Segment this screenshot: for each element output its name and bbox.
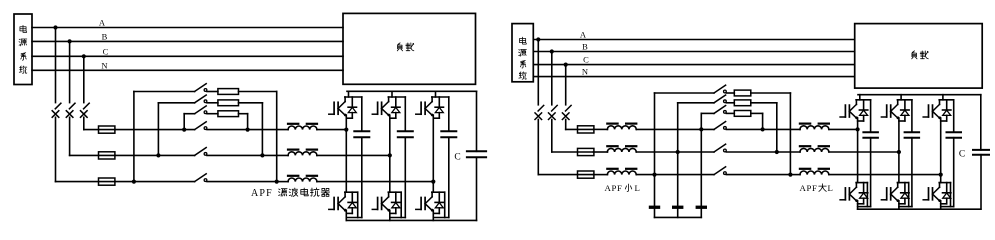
wire phase leg1 vertical (left) — [345, 115, 347, 192]
switch precharge S2 (right) — [714, 95, 726, 103]
switch KM-A (right) — [714, 167, 726, 175]
capacitor C main (right) — [973, 150, 989, 155]
label C (left) — [103, 46, 109, 56]
switch precharge S1 (right) — [714, 85, 726, 93]
svg-text:N: N — [582, 67, 588, 77]
node row A rejoin (left) — [275, 180, 279, 184]
resistor R1 precharge (right) — [734, 90, 751, 96]
node row B rejoin (right) — [775, 150, 779, 154]
wire precharge row1 left riser (left) — [134, 92, 195, 182]
capacitor DC link leg3 (right) — [947, 100, 962, 138]
wire precharge row2 left riser (left) — [158, 103, 194, 156]
reactor big L-B (right) — [800, 146, 829, 152]
breaker X contact phase B (right) — [549, 113, 556, 120]
wire top bus drop leg3 (left) — [435, 91, 437, 97]
wire phase leg3 vertical (left) — [432, 115, 434, 192]
wire node to reactor A (left) — [277, 181, 288, 183]
wire drop phase A upper (right) — [537, 40, 539, 105]
wire node to reactor C (left) — [248, 129, 289, 131]
wire rejoin C to big reactor (right) — [763, 128, 800, 130]
svg-text:APF: APF — [605, 183, 623, 193]
svg-text:A: A — [580, 30, 587, 40]
switch KM-B (right) — [714, 144, 726, 152]
wire leg1 bottom step (left) — [346, 137, 362, 217]
svg-text:C: C — [454, 153, 460, 163]
wire emitter leg2 to bus (right) — [898, 201, 900, 209]
wire fuse B to switch (left) — [115, 154, 195, 156]
IGBT V5 bottom with diode (right) — [881, 183, 909, 207]
breaker QF blade phase B (right) — [552, 105, 558, 111]
wire filter cap drop B (right) — [677, 152, 679, 217]
capacitor DC link leg2 (right) — [905, 100, 920, 138]
IGBT V1 top with diode (right) — [840, 100, 871, 121]
IGBT V5 bottom with diode (left) — [372, 192, 401, 217]
wire precharge row2 mid (left) — [207, 102, 218, 104]
switch KM-C (right) — [714, 122, 726, 130]
wire phase A bus (left) — [32, 27, 343, 29]
wire drop phase C upper (right) — [565, 65, 567, 105]
DC negative bus (left) — [346, 219, 476, 221]
reactor small L-B (right) — [607, 146, 636, 152]
wire leg2 bottom step (left) — [390, 137, 406, 217]
reactor small L-C (right) — [607, 124, 636, 130]
wire row B to fuse (left) — [70, 154, 115, 156]
wire leg3 bottom step (right) — [941, 138, 954, 207]
wire fuse A to reactor (right) — [593, 174, 607, 176]
fuse FU-C (left) — [99, 126, 115, 133]
wire drop phase C lower (right) — [565, 120, 567, 130]
wire precharge row3 right (left) — [239, 114, 248, 130]
wire drop phase C lower (left) — [83, 117, 85, 129]
wire phase leg2 vertical (left) — [389, 115, 391, 192]
IGBT V6 bottom with diode (right) — [923, 183, 951, 207]
reactor L-B APF (left) — [288, 150, 317, 156]
load box 负载 (left) — [343, 13, 476, 84]
breaker QF blade phase A (right) — [538, 105, 544, 111]
wire precharge row1 mid (right) — [726, 92, 734, 94]
label APF大L (right) — [800, 183, 833, 193]
wire precharge row3 left riser (left) — [184, 114, 194, 130]
node row A tap (right) — [652, 173, 656, 177]
svg-text:A: A — [99, 18, 106, 28]
reactor small L-A (right) — [607, 169, 636, 175]
svg-text:C: C — [103, 46, 109, 56]
wire fuse A to switch (left) — [115, 181, 195, 183]
node tap phase A (left) — [53, 25, 57, 29]
IGBT V1 top with diode (left) — [329, 97, 362, 118]
wire big reactor B to bridge (right) — [829, 151, 899, 153]
wire drop phase A lower (right) — [537, 120, 539, 175]
fuse FU-A (right) — [578, 171, 594, 178]
wire reactor C to bridge (left) — [317, 129, 346, 131]
wire precharge row2 mid (right) — [726, 102, 734, 104]
label APF小L (right) — [605, 183, 640, 193]
wire filter cap common bar (right) — [655, 216, 702, 218]
wire drop phase B lower (right) — [551, 120, 553, 153]
wire filter cap drop A (right) — [654, 175, 656, 218]
wire row B to fuse (right) — [552, 151, 594, 153]
svg-text:APF: APF — [800, 183, 818, 193]
wire DC bus right edge top (right) — [980, 95, 982, 150]
DC positive bus (right) — [858, 94, 981, 96]
wire reactor B to bridge (left) — [317, 154, 390, 156]
wire big reactor C to bridge (right) — [829, 128, 857, 130]
node phase leg3 (right) — [939, 173, 943, 177]
wire emitter leg2 to bus (left) — [389, 210, 391, 220]
svg-text:B: B — [102, 31, 108, 41]
wire top bus drop leg1 (right) — [859, 95, 861, 100]
label N (left) — [101, 60, 107, 70]
wire drop phase B upper (left) — [69, 41, 71, 102]
node row B tap (right) — [676, 150, 680, 154]
switch precharge S3 (right) — [714, 106, 726, 114]
wire big reactor A to bridge (right) — [829, 174, 940, 176]
label A (left) — [99, 18, 106, 28]
wire emitter leg1 to bus (right) — [857, 201, 859, 209]
node tap phase A (right) — [536, 37, 540, 41]
wire phase C bus (left) — [32, 55, 343, 57]
capacitor filter A plate (right) — [649, 206, 660, 209]
wire switch A to rejoin (right) — [726, 174, 790, 176]
capacitor DC link leg2 (left) — [398, 97, 413, 137]
fuse FU-A (left) — [99, 178, 115, 185]
label A (right) — [580, 30, 587, 40]
node row C tap (right) — [699, 127, 703, 131]
switch precharge S3 (left) — [195, 106, 207, 114]
wire precharge row1 right (right) — [751, 93, 791, 175]
svg-text:C: C — [583, 55, 589, 65]
wire fuse B to reactor (right) — [593, 151, 607, 153]
resistor R3 precharge (right) — [734, 111, 751, 117]
wire DC bus right edge bottom (right) — [980, 155, 982, 210]
svg-text:L: L — [635, 183, 640, 193]
power source box 电源系统 (right) — [512, 24, 533, 82]
breaker X contact phase A (right) — [535, 113, 542, 120]
breaker X contact phase C (left) — [81, 111, 88, 118]
capacitor filter C plate (right) — [696, 206, 707, 209]
switch KM-A (left) — [195, 174, 207, 182]
label B (right) — [582, 42, 588, 52]
svg-text:C: C — [959, 149, 965, 159]
capacitor DC link leg3 (left) — [441, 97, 456, 137]
wire row A to fuse (right) — [538, 174, 593, 176]
breaker X contact phase A (left) — [52, 111, 59, 118]
wire row C to fuse (left) — [84, 129, 115, 131]
wire rejoin B to big reactor (right) — [777, 151, 800, 153]
svg-text:APF: APF — [251, 188, 273, 199]
wire neutral N bus (right) — [533, 76, 854, 78]
wire switch B to node (left) — [207, 154, 262, 156]
resistor R2 precharge (right) — [734, 100, 751, 106]
wire reactor B to tap (right) — [637, 151, 714, 153]
label C (right) — [959, 149, 965, 159]
wire node to reactor B (left) — [262, 154, 288, 156]
wire DC bus right edge bottom (left) — [476, 157, 478, 220]
wire precharge row3 right (right) — [751, 113, 763, 129]
capacitor DC link leg1 (left) — [354, 97, 369, 137]
wire DC bus right edge top (left) — [476, 91, 478, 151]
switch KM-B (left) — [195, 148, 207, 156]
node row C rejoin (left) — [246, 128, 250, 132]
wire row A to fuse (left) — [56, 181, 115, 183]
wire precharge row3 mid (left) — [207, 113, 218, 115]
wire phase A bus (right) — [533, 39, 854, 41]
node phase leg2 (right) — [897, 150, 901, 154]
breaker QF blade phase A (left) — [55, 103, 61, 109]
label C phase (right) — [583, 55, 589, 65]
IGBT V2 top with diode (right) — [881, 100, 912, 121]
wire top bus drop leg2 (right) — [900, 95, 902, 100]
node tap phase C (left) — [82, 54, 86, 58]
wire drop phase A lower (left) — [55, 117, 57, 181]
wire neutral N bus (left) — [32, 69, 343, 71]
wire drop phase C upper (left) — [83, 56, 85, 102]
node row C rejoin (right) — [761, 127, 765, 131]
node phase leg1 (right) — [856, 127, 860, 131]
wire emitter leg3 to bus (left) — [432, 210, 434, 220]
reactor L-A APF (left) — [288, 176, 317, 182]
wire drop phase B lower (left) — [69, 117, 71, 155]
fuse FU-B (left) — [99, 152, 115, 159]
node phase leg1 (left) — [344, 128, 348, 132]
breaker X contact phase C (right) — [562, 113, 569, 120]
wire fuse C to switch (left) — [115, 129, 195, 131]
wire leg2 bottom step (right) — [899, 138, 912, 207]
wire phase B bus (left) — [32, 40, 343, 42]
IGBT V4 bottom with diode (left) — [329, 192, 358, 217]
wire reactor A to bridge (left) — [317, 181, 433, 183]
fuse FU-C (right) — [578, 126, 594, 133]
node tap phase C (right) — [564, 63, 568, 67]
wire precharge row2 right (right) — [751, 103, 777, 152]
IGBT V4 bottom with diode (right) — [840, 183, 868, 207]
switch precharge S2 (left) — [195, 95, 207, 103]
svg-text:B: B — [582, 42, 588, 52]
label C (left) — [454, 153, 460, 163]
breaker QF blade phase B (left) — [69, 103, 75, 109]
wire emitter leg1 to bus (left) — [345, 210, 347, 220]
wire switch C to rejoin (right) — [726, 128, 762, 130]
switch KM-C (left) — [195, 122, 207, 130]
resistor R1 precharge (left) — [218, 89, 239, 95]
wire fuse C to reactor (right) — [593, 128, 607, 130]
IGBT V2 top with diode (left) — [372, 97, 405, 118]
wire phase C bus (right) — [533, 64, 854, 66]
wire precharge row2 left riser (right) — [678, 103, 714, 152]
wire precharge row3 mid (right) — [726, 112, 734, 114]
wire precharge row1 right (left) — [239, 92, 277, 182]
capacitor C main (left) — [467, 151, 486, 157]
wire row C to fuse (right) — [566, 128, 594, 130]
wire top bus drop leg1 (left) — [348, 91, 350, 97]
load box 负载 (right) — [855, 24, 983, 89]
wire precharge row1 left riser (right) — [655, 93, 715, 175]
svg-text:N: N — [101, 60, 107, 70]
wire leg3 bottom step (left) — [433, 137, 449, 217]
wire precharge row3 left riser (right) — [701, 113, 714, 129]
node phase leg2 (left) — [388, 153, 392, 157]
node row B precharge tap (left) — [156, 153, 160, 157]
reactor big L-C (right) — [800, 124, 829, 130]
switch precharge S1 (left) — [195, 84, 207, 92]
capacitor filter B plate (right) — [672, 206, 683, 209]
reactor big L-A (right) — [800, 169, 829, 175]
DC positive bus (left) — [347, 90, 477, 92]
wire switch C to node (left) — [207, 129, 248, 131]
label N (right) — [582, 67, 588, 77]
node phase leg3 (left) — [431, 180, 435, 184]
wire top bus drop leg2 (left) — [391, 91, 393, 97]
wire phase leg2 vertical (right) — [898, 118, 900, 183]
wire reactor C to tap (right) — [637, 128, 714, 130]
node tap phase B (right) — [550, 49, 554, 53]
wire precharge row1 mid (left) — [207, 91, 218, 93]
wire top bus drop leg3 (right) — [942, 95, 944, 100]
IGBT V3 top with diode (right) — [923, 100, 954, 121]
resistor R3 precharge (left) — [218, 111, 239, 117]
wire drop phase B upper (right) — [551, 52, 553, 105]
label B (left) — [102, 31, 108, 41]
wire precharge row2 right (left) — [239, 103, 263, 156]
resistor R2 precharge (left) — [218, 100, 239, 106]
wire leg1 bottom step (right) — [858, 138, 871, 207]
IGBT V6 bottom with diode (left) — [416, 192, 445, 217]
node row B rejoin (left) — [260, 153, 264, 157]
DC negative bus (right) — [858, 208, 981, 210]
wire filter cap drop C (right) — [700, 129, 702, 217]
wire switch A to node (left) — [207, 181, 277, 183]
wire rejoin A to big reactor (right) — [790, 174, 800, 176]
wire reactor A to tap (right) — [637, 174, 714, 176]
wire switch B to rejoin (right) — [726, 151, 776, 153]
node row C precharge tap (left) — [182, 128, 186, 132]
wire phase leg1 vertical (right) — [857, 118, 859, 183]
breaker X contact phase B (left) — [66, 111, 73, 118]
wire drop phase A upper (left) — [55, 28, 57, 103]
capacitor DC link leg1 (right) — [863, 100, 878, 138]
node tap phase B (left) — [68, 39, 72, 43]
fuse FU-B (right) — [578, 148, 594, 155]
reactor L-C APF (left) — [288, 124, 317, 130]
node row A precharge tap (left) — [132, 180, 136, 184]
power source box 电源系统 (left) — [14, 14, 32, 85]
IGBT V3 top with diode (left) — [416, 97, 449, 118]
breaker QF blade phase C (left) — [84, 103, 90, 109]
label APF滤波电抗器 (left) — [251, 188, 330, 199]
wire emitter leg3 to bus (right) — [940, 201, 942, 209]
breaker QF blade phase C (right) — [566, 105, 572, 111]
svg-text:L: L — [828, 183, 833, 193]
wire phase B bus (right) — [533, 51, 854, 53]
wire phase leg3 vertical (right) — [940, 118, 942, 183]
node row A rejoin (right) — [788, 173, 792, 177]
